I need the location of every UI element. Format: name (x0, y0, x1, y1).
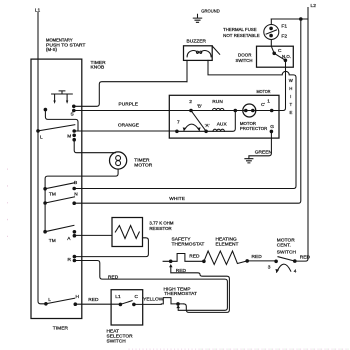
vertical label WHITE (289, 78, 294, 115)
buzzer (184, 39, 220, 61)
svg-text:GREEN: GREEN (255, 150, 273, 156)
svg-text:MOTOR: MOTOR (134, 162, 153, 168)
wire A to resistor (74, 234, 112, 236)
svg-text:M: M (67, 133, 71, 139)
svg-text:RED: RED (88, 297, 99, 303)
motor terminal G with green ground (245, 124, 274, 163)
svg-text:2: 2 (189, 99, 192, 105)
motor run winding wire (189, 99, 272, 112)
motor aux winding (175, 109, 237, 133)
wire buzzer right lead across (hop over door lead) to white drop (74, 60, 296, 188)
wire S upper branch up and right to buzzer (74, 82, 187, 107)
wire N bus from timer N terminal right and up to top junction (72, 19, 300, 205)
svg-text:THERMOSTAT: THERMOSTAT (172, 242, 205, 248)
svg-text:L: L (40, 134, 43, 140)
svg-text:KNOB: KNOB (91, 65, 105, 71)
heating element (202, 237, 249, 265)
node S terminal (71, 105, 76, 118)
svg-text:MOTOR: MOTOR (257, 89, 271, 95)
svg-text:WHITE: WHITE (169, 196, 185, 202)
push-to-start button M-S (52, 91, 73, 104)
svg-text:TM: TM (49, 238, 56, 244)
heat selector switch (107, 290, 143, 345)
timer motor (110, 152, 153, 169)
svg-text:L: L (48, 297, 51, 303)
svg-text:RED: RED (300, 255, 311, 261)
wire M lower to timer motor (74, 140, 115, 153)
wire WHITE run label (72, 187, 185, 203)
motor cent actuator arc 7-A (183, 124, 201, 131)
wire red R lower long run to high temp thermostat terminal (74, 261, 227, 311)
switch L-M with arm (36, 125, 76, 142)
svg-text:SWITCH: SWITCH (277, 250, 297, 256)
wire door switch N.O. lead down to motor terminal 1 (272, 60, 286, 110)
svg-text:H: H (289, 86, 292, 91)
wire buzzer left lead to S branch (186, 60, 188, 81)
wire red cent switch to L2 (300, 255, 311, 261)
switch TM-N (43, 192, 78, 205)
wire high temp out loop to safety thermostat (169, 264, 229, 312)
node R terminal (68, 255, 77, 263)
svg-text:THERMAL FUSE: THERMAL FUSE (223, 27, 257, 32)
svg-text:C': C' (261, 102, 265, 107)
svg-text:E: E (290, 110, 293, 115)
svg-text:(M-S): (M-S) (46, 47, 58, 52)
svg-text:AUX: AUX (217, 121, 228, 127)
svg-text:4: 4 (294, 268, 297, 274)
svg-text:ELEMENT: ELEMENT (216, 242, 239, 248)
svg-text:PURPLE: PURPLE (119, 101, 139, 107)
svg-text:RUN: RUN (212, 99, 223, 105)
svg-text:SWITCH: SWITCH (107, 339, 127, 345)
svg-text:N.O.: N.O. (282, 54, 291, 59)
timer box (31, 59, 82, 331)
svg-text:F2: F2 (281, 34, 287, 40)
svg-text:I: I (290, 94, 291, 99)
svg-text:SWITCH: SWITCH (236, 58, 253, 64)
wire red H to heat selector (75, 297, 120, 304)
timer knob label (91, 60, 107, 71)
wire push button left contact to M junction (44, 108, 78, 131)
wire red element to cent switch (247, 254, 276, 261)
momentary push to start text (46, 38, 86, 52)
wire L1 vertical bus down left side into timer to bottom L contact (38, 13, 46, 304)
border artifacts bottom and left (faint scan dots) (8, 169, 349, 350)
svg-text:B: B (74, 180, 77, 186)
wire timer motor return to TM bus (45, 169, 118, 232)
wire thermal fuse to L2 at top, junction to N bus (271, 17, 308, 21)
svg-text:'B': 'B' (197, 104, 202, 109)
svg-text:L2: L2 (311, 3, 317, 9)
svg-text:G: G (270, 124, 274, 130)
svg-text:3: 3 (268, 265, 271, 271)
wire purple S to motor terminal 2 (74, 101, 191, 110)
motor start relay arm 2 to A (191, 111, 206, 132)
switch TM-A (43, 225, 76, 243)
motor box (169, 89, 279, 138)
svg-text:7: 7 (177, 120, 180, 126)
svg-text:TM: TM (49, 192, 56, 198)
wire resistor out loop down to R upper (74, 238, 148, 257)
motor centrifugal switch 3-4 (268, 238, 297, 275)
svg-text:NOT RESETABLE: NOT RESETABLE (223, 33, 260, 38)
switch timer L-H (44, 294, 79, 306)
resistor 3.77 K OHM (112, 218, 174, 247)
door switch (236, 46, 294, 67)
svg-text:THERMOSTAT: THERMOSTAT (164, 291, 197, 297)
wire L2 vertical down right side turning left to motor cent switch (295, 8, 308, 262)
svg-text:T: T (290, 102, 293, 107)
svg-text:RED: RED (252, 254, 263, 260)
svg-text:PROTECTOR: PROTECTOR (240, 126, 267, 131)
svg-text:L1: L1 (115, 294, 121, 300)
svg-text:RED: RED (108, 274, 119, 280)
node L2 label (311, 3, 317, 9)
wire orange M to motor terminal 7 (74, 123, 177, 131)
svg-text:N: N (74, 192, 78, 198)
svg-text:YELLOW: YELLOW (143, 296, 164, 302)
safety thermostat (163, 237, 204, 264)
high temp thermostat (161, 286, 197, 305)
node L1 label (35, 8, 41, 14)
svg-text:S: S (71, 112, 74, 118)
svg-text:ORANGE: ORANGE (118, 123, 139, 129)
svg-text:3.77 K OHM: 3.77 K OHM (149, 220, 174, 225)
svg-text:TIMER: TIMER (53, 325, 69, 331)
thermal fuse F1 F2 (223, 19, 287, 53)
motor protector (240, 104, 267, 131)
svg-text:C: C (135, 294, 139, 300)
svg-text:RESISTOR: RESISTOR (149, 226, 171, 231)
switch TM-B (43, 180, 77, 190)
svg-text:BUZZER: BUZZER (187, 39, 207, 45)
svg-text:CENT.: CENT. (277, 243, 291, 249)
svg-text:'A': 'A' (205, 123, 210, 128)
svg-text:1: 1 (267, 99, 270, 105)
svg-text:DOOR: DOOR (238, 53, 252, 59)
ground (top) (193, 9, 220, 23)
svg-text:R: R (68, 257, 72, 263)
svg-text:GROUND: GROUND (201, 9, 220, 15)
svg-text:H: H (76, 294, 80, 300)
svg-text:RED: RED (176, 268, 187, 274)
svg-text:F1: F1 (281, 24, 287, 30)
motor terminal 1 C' (261, 99, 273, 113)
wire yellow heat selector to high temp thermostat (134, 296, 164, 304)
svg-text:RED: RED (189, 254, 200, 260)
